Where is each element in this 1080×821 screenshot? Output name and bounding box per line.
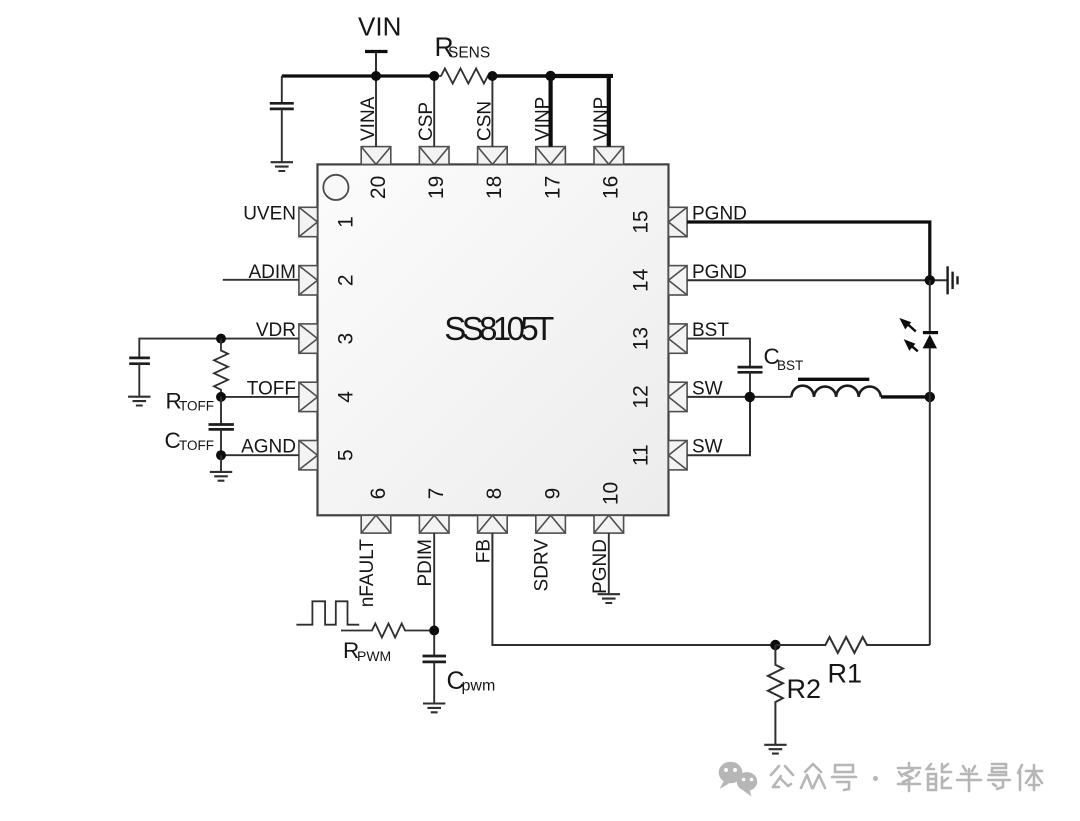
pin box pin 7 PDIM xyxy=(419,515,449,533)
svg-text:FB: FB xyxy=(473,539,494,563)
capacitor CBST xyxy=(738,367,763,397)
pin box pin 20 VINA xyxy=(361,147,391,165)
svg-text:16: 16 xyxy=(600,176,623,199)
svg-text:VIN: VIN xyxy=(358,12,401,42)
junction node SW xyxy=(745,392,755,402)
char 率 xyxy=(898,763,920,791)
label CPWM xyxy=(447,667,496,695)
svg-text:10: 10 xyxy=(600,482,623,505)
svg-text:8: 8 xyxy=(483,488,506,500)
svg-text:BST: BST xyxy=(777,358,803,373)
label RSENS xyxy=(435,32,491,62)
junction node CSP xyxy=(429,71,439,81)
wire VIN bus right segment (CSN to VINP) xyxy=(492,74,550,77)
wire VINP thick bus segment xyxy=(551,76,611,78)
ground (R2) xyxy=(764,745,786,754)
pin box pin 3 VDR xyxy=(299,324,318,353)
junction node AGND xyxy=(216,450,226,460)
pin box pin 6 nFAULT xyxy=(361,515,391,533)
IC pin-1 marker circle xyxy=(323,175,348,200)
svg-text:R1: R1 xyxy=(828,659,863,689)
char 公 xyxy=(771,766,793,787)
svg-text:11: 11 xyxy=(630,444,653,466)
label RTOFF xyxy=(166,389,215,414)
pin box pin 10 PGND xyxy=(594,515,624,533)
capacitor CPWM xyxy=(423,656,447,704)
capacitor CIN (input bypass) xyxy=(270,76,294,162)
junction node VIN xyxy=(371,71,381,81)
ground (right, rotated) xyxy=(948,266,958,294)
svg-text:5: 5 xyxy=(334,449,357,461)
wire pin18 CSN vertical xyxy=(491,76,493,147)
label CBST xyxy=(764,344,804,373)
capacitor CTOFF xyxy=(209,397,234,455)
resistor R2 xyxy=(768,645,783,745)
junction node VDR xyxy=(216,334,226,344)
wire PGND pin15 (thick) xyxy=(687,222,930,280)
wire PGND pin14 xyxy=(687,279,948,281)
wire FB net xyxy=(492,533,775,645)
svg-text:SENS: SENS xyxy=(448,45,490,62)
svg-text:2: 2 xyxy=(334,274,357,286)
svg-text:17: 17 xyxy=(541,176,564,199)
junction node FB divider xyxy=(770,640,780,650)
wire AGND xyxy=(221,454,299,456)
resistor R1 xyxy=(775,637,929,653)
LED emission arrow 2 xyxy=(904,339,918,351)
pin box pin 9 SDRV xyxy=(536,515,566,533)
char 导 xyxy=(988,764,1010,789)
watermark text 公众号 · 率能半导体 (drawn strokes) xyxy=(771,763,1042,791)
wire ADIM stub xyxy=(223,279,299,281)
wire inductor output (thick) xyxy=(881,395,930,398)
pin box pin 8 FB xyxy=(478,515,508,533)
LED emission arrow 1 xyxy=(899,318,916,332)
wire LED branch upper xyxy=(929,280,931,332)
svg-text:3: 3 xyxy=(334,333,357,345)
wire VDR net xyxy=(139,339,299,358)
wire BST net xyxy=(687,339,750,368)
label RPWM xyxy=(343,638,391,664)
svg-text:TOFF: TOFF xyxy=(179,399,214,414)
junction node CSN xyxy=(487,71,497,81)
pin box pin 15 PGND xyxy=(669,207,688,236)
resistor RSENS xyxy=(434,69,492,84)
svg-text:UVEN: UVEN xyxy=(243,204,296,225)
middle dot xyxy=(873,776,878,781)
wire VIN bus left segment xyxy=(282,74,434,77)
LED D1 xyxy=(923,333,939,397)
svg-text:PWM: PWM xyxy=(357,648,391,664)
pin box pin 14 PGND xyxy=(669,266,688,295)
char 能 xyxy=(927,764,951,790)
svg-text:19: 19 xyxy=(425,176,448,199)
char 众 xyxy=(801,764,825,788)
junction node VINP xyxy=(545,71,555,81)
inductor L1 xyxy=(792,386,881,397)
svg-text:pwm: pwm xyxy=(462,678,496,695)
junction node PDIM xyxy=(429,626,439,636)
svg-text:7: 7 xyxy=(425,488,448,500)
wire pin16 VINP vertical xyxy=(607,76,611,147)
ground (CVDR) xyxy=(128,397,150,406)
svg-text:15: 15 xyxy=(630,210,653,233)
ground (CPWM) xyxy=(423,704,445,713)
svg-text:R2: R2 xyxy=(787,674,822,704)
wire TOFF xyxy=(221,396,299,398)
ground (CIN) xyxy=(271,162,293,171)
pin box pin 1 UVEN xyxy=(299,207,318,236)
pin box pin 17 VINP xyxy=(536,147,566,165)
pin box pin 2 ADIM xyxy=(299,266,318,295)
svg-text:SDRV: SDRV xyxy=(532,539,553,592)
pin box pin 5 AGND xyxy=(299,441,318,470)
pin box pin 11 SW xyxy=(669,441,688,470)
pin box pin 12 SW xyxy=(669,382,688,411)
svg-text:1: 1 xyxy=(334,216,357,228)
IC U1 SS8105T body xyxy=(318,164,669,515)
svg-text:nFAULT: nFAULT xyxy=(357,539,378,608)
pin box pin 19 CSP xyxy=(419,147,449,165)
pin box pin 4 TOFF xyxy=(299,382,318,411)
wire pin17 VINP vertical xyxy=(548,76,552,147)
svg-text:13: 13 xyxy=(630,327,653,350)
svg-text:4: 4 xyxy=(334,391,357,403)
wire SW pin12 xyxy=(687,396,791,398)
junction node PGND xyxy=(925,275,935,285)
ground (AGND) xyxy=(220,455,222,472)
wire right vertical drop xyxy=(929,397,931,645)
pin box pin 16 VINP xyxy=(594,147,624,165)
pin box pin 13 BST xyxy=(669,324,688,353)
svg-text:18: 18 xyxy=(483,176,506,199)
resistor RPWM xyxy=(341,624,434,638)
junction node LED cathode / L1 xyxy=(925,392,935,402)
svg-text:6: 6 xyxy=(367,488,390,500)
svg-text:14: 14 xyxy=(630,268,653,292)
PWM input waveform symbol xyxy=(296,601,359,624)
char 半 xyxy=(957,766,981,791)
wire pin19 CSP vertical xyxy=(433,76,435,147)
svg-text:9: 9 xyxy=(541,488,564,500)
svg-text:TOFF: TOFF xyxy=(179,438,214,453)
capacitor CVDR xyxy=(129,358,150,397)
label CTOFF xyxy=(165,428,215,453)
svg-text:PDIM: PDIM xyxy=(415,539,436,587)
watermark wechat icon xyxy=(719,762,758,797)
svg-text:20: 20 xyxy=(367,176,390,199)
svg-text:PGND: PGND xyxy=(590,539,611,594)
VIN power symbol xyxy=(365,52,388,77)
char 体 xyxy=(1018,765,1042,790)
wire pin20 VINA vertical xyxy=(375,76,377,147)
wire PGND pin10 xyxy=(608,533,610,594)
svg-text:12: 12 xyxy=(630,385,653,408)
ground (pin10 PGND) xyxy=(598,594,620,603)
inductor L1 core bar xyxy=(798,378,869,381)
char 号 xyxy=(832,765,856,790)
junction node TOFF xyxy=(216,392,226,402)
wire PDIM vertical xyxy=(433,533,435,656)
wire SW pin11 xyxy=(687,397,750,455)
resistor RTOFF xyxy=(214,339,228,397)
svg-text:SS8105T: SS8105T xyxy=(444,310,554,347)
pin box pin 18 CSN xyxy=(478,147,508,165)
